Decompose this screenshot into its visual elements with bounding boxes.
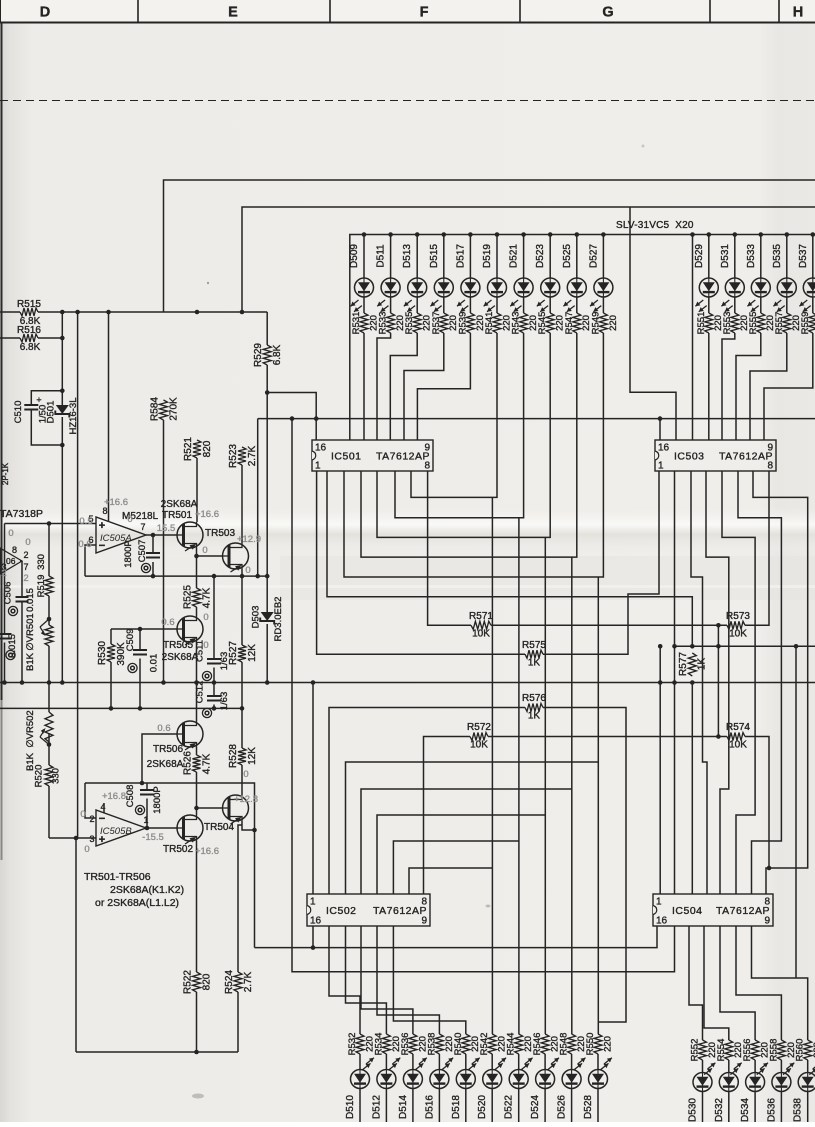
svg-text:10K: 10K: [470, 740, 488, 751]
wire: vertical x=660.2 to IC504: [659, 646, 661, 894]
node: bus junction D537: [811, 232, 815, 237]
resistor R541 220: [493, 313, 501, 333]
svg-text:0: 0: [203, 640, 208, 651]
wire: IC503 pin loop via x=781.4: [738, 471, 781, 894]
wire: feedback line y=576.1: [85, 575, 267, 577]
svg-text:R552: R552: [690, 1039, 701, 1062]
wire: D513 anode: [416, 235, 418, 279]
wire: op-amp B plus input line: [49, 837, 96, 839]
node: bus junction D531: [733, 232, 738, 237]
wire: R540 to D518: [465, 1054, 467, 1070]
wire: op-amp A output: [146, 534, 177, 536]
wire: D520 cathode off page: [491, 1089, 493, 1123]
wire: rail drop x=77.6 to IC505B plus net: [77, 312, 79, 838]
LED D526: [562, 1070, 581, 1089]
wire: IC502 loop arm 5: [346, 762, 599, 894]
svg-text:D512: D512: [371, 1095, 382, 1119]
node: bus junction D529: [707, 232, 712, 237]
svg-text:D520: D520: [477, 1095, 488, 1119]
wire: D521 cathode: [523, 297, 525, 313]
wire: R533 to IC501 pin12: [377, 333, 391, 440]
svg-text:IC505B: IC505B: [100, 826, 132, 837]
wire: R544 to D522: [518, 1054, 520, 1070]
svg-text:R515: R515: [17, 299, 41, 310]
svg-text:D538: D538: [793, 1098, 804, 1122]
svg-text:0.6: 0.6: [161, 617, 174, 628]
wire: IC504 pin to R554: [704, 926, 729, 1040]
wire: R584 down to mid rail: [163, 420, 165, 683]
svg-text:-15.5: -15.5: [142, 832, 164, 843]
svg-text:E: E: [228, 5, 238, 21]
resistor R534 220: [382, 1034, 390, 1054]
resistor R542 220: [488, 1034, 496, 1054]
node: bus junction D521: [521, 232, 526, 237]
svg-text:D522: D522: [504, 1095, 515, 1119]
svg-text:1800P: 1800P: [123, 540, 134, 567]
resistor R520 330: [45, 765, 53, 786]
svg-text:+16.8: +16.8: [102, 791, 126, 802]
svg-text:R523: R523: [228, 444, 239, 468]
svg-text:R548: R548: [559, 1033, 570, 1056]
wire: R525 to TR505 drain: [196, 607, 198, 616]
svg-text:2: 2: [23, 550, 28, 560]
wire: R535 to IC501 pin11: [390, 333, 417, 440]
wire: IC502 pin3 to R534: [346, 926, 387, 1034]
svg-text:270K: 270K: [169, 397, 180, 421]
wire: rail drop x=108.5 to IC505A pin8: [108, 312, 110, 522]
op-amp driver IC503 TA7612AP: [655, 440, 776, 471]
svg-text:R531: R531: [351, 312, 362, 335]
svg-text:TA7612AP: TA7612AP: [719, 451, 773, 463]
node: bus junction D511: [388, 232, 393, 237]
svg-text:1: 1: [315, 461, 321, 472]
wire: IC503 pin loop via x=702.5: [691, 471, 707, 894]
svg-text:R545: R545: [537, 312, 548, 335]
svg-text:TR504: TR504: [204, 822, 234, 833]
wire: left drop x=4.5 with cap: [4, 524, 6, 683]
svg-text:6.8K: 6.8K: [20, 342, 41, 353]
wire: R572/R574 line y=736.5: [424, 737, 471, 895]
wire: D525 anode: [576, 235, 578, 279]
variable resistor VR502 B1K: [45, 712, 53, 742]
wire: R554 to D532: [728, 1060, 730, 1073]
wire: R560 to D538: [807, 1060, 809, 1073]
op-amp driver IC501 TA7612AP: [312, 440, 433, 471]
svg-text:16: 16: [656, 916, 668, 927]
wire: R577 net down to IC504: [691, 683, 693, 895]
svg-text:D501: D501: [46, 401, 57, 424]
wire: R557 to IC503 pin: [750, 333, 787, 440]
svg-text:10K: 10K: [729, 740, 747, 751]
wire: bus dot feed IC503 pin14: [690, 232, 695, 237]
node: bus junction D515: [442, 232, 447, 237]
transistor TR502: [177, 815, 203, 841]
wire: IC504 pin to R558: [736, 926, 781, 1040]
resistor R532 220: [356, 1034, 364, 1054]
svg-text:820: 820: [202, 440, 213, 457]
svg-text:2: 2: [1, 568, 6, 579]
svg-text:F: F: [420, 5, 429, 21]
svg-text:D525: D525: [562, 244, 573, 268]
svg-text:D509: D509: [349, 244, 360, 268]
wire: net y=646.3: [675, 645, 815, 647]
wire: jog line y=971.8: [292, 419, 675, 972]
svg-text:SLV-31VC5 X20: SLV-31VC5 X20: [616, 220, 694, 231]
svg-text:0: 0: [8, 528, 13, 539]
svg-text:R557: R557: [774, 312, 785, 335]
resistor R530 390K: [107, 644, 115, 662]
capacitor C508 1800P: [146, 783, 148, 828]
resistor R556 220: [751, 1040, 759, 1060]
resistor R576 1K: [525, 704, 543, 712]
node: R516 junction: [60, 336, 65, 341]
capacitor 0.015: [0, 634, 12, 639]
LED D513: [408, 278, 427, 297]
svg-text:1: 1: [658, 461, 664, 472]
wire: TR501 source to TR503 gate: [197, 548, 223, 556]
resistor R531 220: [360, 313, 368, 333]
wire: lower rail y=947.6: [255, 926, 658, 948]
wire: D528 cathode off page: [597, 1089, 599, 1123]
wire: minus input to feedback-B: [85, 783, 96, 818]
svg-text:R551: R551: [696, 312, 707, 335]
svg-text:2: 2: [89, 814, 94, 824]
resistor R544 220: [515, 1034, 523, 1054]
svg-text:R559: R559: [800, 312, 811, 335]
wire: R556 to D534: [754, 1060, 756, 1073]
svg-text:4.7K: 4.7K: [202, 753, 213, 774]
wire: loop vertical to bottom bank col 7: [544, 537, 546, 1034]
LED D519: [488, 278, 507, 297]
svg-text:C509: C509: [125, 629, 136, 652]
svg-text:R576: R576: [522, 693, 546, 704]
svg-text:R539: R539: [457, 312, 468, 335]
wire: D537 cathode: [812, 297, 814, 313]
wire: 1052 rail: [76, 1051, 238, 1053]
svg-text:10K: 10K: [472, 629, 490, 640]
svg-text:12K: 12K: [247, 644, 258, 662]
svg-text:16: 16: [315, 443, 327, 454]
partial op-amp IC506 at left edge: [0, 548, 22, 574]
wire: TR502 drain to R522: [196, 841, 198, 972]
zener diode D503 RD3.0EB2: [261, 612, 274, 621]
wire: R546 to D524: [544, 1054, 546, 1070]
resistor R555 220: [757, 313, 765, 333]
variable resistor VR501 B1K: [45, 625, 53, 646]
svg-text:R534: R534: [373, 1033, 384, 1056]
wire: IC504 pin to R560: [752, 926, 808, 1040]
svg-text:4: 4: [100, 802, 105, 812]
svg-text:D503: D503: [251, 606, 262, 629]
node: bus junction D517: [468, 232, 473, 237]
paper speck: [642, 145, 645, 148]
svg-text:D537: D537: [798, 244, 809, 268]
node: mid rail junction: [311, 680, 316, 685]
svg-text:R535: R535: [404, 312, 415, 335]
svg-text:R520: R520: [34, 765, 45, 788]
node: mid rail junction: [161, 680, 166, 685]
capacitor C509 0.01: [139, 629, 141, 708]
svg-text:TR506: TR506: [153, 744, 183, 755]
svg-text:R574: R574: [726, 722, 750, 733]
wire: feed to next bank x=796: [795, 646, 797, 978]
node: mid rail junction: [672, 680, 677, 685]
wire: R573-R574 tie vertical: [717, 625, 719, 736]
wire: D516 cathode off page: [438, 1089, 440, 1123]
svg-text:IC504: IC504: [672, 905, 703, 917]
svg-text:D523: D523: [535, 244, 546, 268]
wire: line2 rail y=708.4: [0, 707, 242, 709]
node: mid rail junction: [658, 680, 663, 685]
wire: D525 cathode: [576, 297, 578, 313]
svg-text:IC502: IC502: [326, 905, 357, 917]
svg-text:D521: D521: [509, 244, 520, 268]
svg-text:1K: 1K: [528, 711, 541, 722]
wire: main mid rail y=682.5: [0, 682, 815, 684]
svg-text:9: 9: [421, 916, 427, 927]
LED D533: [751, 278, 770, 297]
wire: R520 to plus input line: [48, 786, 50, 838]
LED D511: [381, 278, 400, 297]
node: bus junction D513: [415, 232, 420, 237]
svg-text:330: 330: [51, 768, 62, 784]
wire: D535 anode: [786, 235, 788, 279]
transistor TR501 2SK68A: [177, 522, 203, 548]
resistor R528 12K: [241, 708, 243, 748]
svg-text:R533: R533: [378, 312, 389, 335]
svg-text:0: 0: [127, 514, 132, 525]
svg-text:16: 16: [658, 443, 670, 454]
wire: R553 to IC503 pin: [722, 333, 735, 440]
wire: D511 cathode: [390, 297, 392, 313]
resistor R584 270K: [160, 400, 168, 420]
wire: D527 anode: [602, 235, 604, 279]
svg-text:R547: R547: [564, 312, 575, 335]
svg-text:R554: R554: [716, 1039, 727, 1062]
resistor R572 10K: [470, 733, 488, 741]
svg-text:R540: R540: [453, 1033, 464, 1056]
resistor R547 220: [573, 313, 581, 333]
wire: IC503 pin loop via x=728.8: [706, 471, 729, 894]
svg-text:2P-1K: 2P-1K: [1, 462, 10, 485]
op-amp IC505A M5218L: [96, 517, 146, 553]
svg-text:1: 1: [656, 897, 662, 908]
resistor R515 6.8K: [0, 311, 20, 313]
resistor R537 220: [440, 313, 448, 333]
node: bus junction D523: [548, 232, 553, 237]
resistor R522 820: [193, 972, 201, 992]
svg-text:R538: R538: [426, 1033, 437, 1056]
LED D538: [798, 1073, 815, 1092]
wire: LED anode bus y=234.5: [350, 235, 815, 441]
node: mid rail junction: [60, 680, 65, 685]
wire: R558 to D536: [780, 1060, 782, 1073]
svg-text:TR501-TR506: TR501-TR506: [84, 871, 151, 883]
svg-text:G: G: [602, 5, 613, 21]
svg-text:1: 1: [143, 815, 148, 825]
svg-text:+16.6: +16.6: [195, 509, 219, 520]
wire: D515 cathode: [443, 297, 445, 313]
wire: R526 to TR502 source / TR504 gate: [197, 772, 223, 815]
svg-text:220: 220: [608, 315, 619, 331]
svg-text:R527: R527: [228, 641, 239, 665]
svg-text:D535: D535: [772, 244, 783, 268]
svg-text:D530: D530: [688, 1098, 699, 1122]
wire: IC503 pin15 chain to IC504: [674, 471, 676, 646]
svg-text:R519: R519: [36, 575, 47, 598]
svg-text:D529: D529: [694, 244, 705, 268]
svg-text:7: 7: [23, 562, 28, 572]
svg-text:C507: C507: [137, 540, 148, 563]
resistor R577 1K: [688, 653, 696, 676]
resistor R516 6.8K: [0, 337, 20, 339]
wire: IC502 pin2 to R532: [329, 926, 360, 1034]
svg-text:10K: 10K: [729, 629, 747, 640]
resistor R558 220: [777, 1040, 785, 1060]
svg-text:R544: R544: [506, 1033, 517, 1056]
wire: TR504 source jog: [242, 821, 255, 830]
svg-text:0.015: 0.015: [25, 588, 36, 612]
svg-text:1: 1: [310, 897, 316, 908]
wire: D530 cathode off page: [702, 1092, 704, 1123]
wire: IC502 pin4 to R536: [361, 926, 413, 1034]
svg-text:0: 0: [202, 545, 207, 556]
paper smudge: [192, 1094, 204, 1099]
svg-text:16: 16: [310, 916, 322, 927]
wire: D523 anode: [549, 235, 551, 279]
node: mid rail junction: [194, 680, 199, 685]
svg-text:R575: R575: [522, 640, 546, 651]
svg-text:D510: D510: [345, 1095, 356, 1119]
LED D512: [377, 1070, 396, 1089]
svg-text:D526: D526: [557, 1095, 568, 1119]
resistor R554 220: [725, 1040, 733, 1060]
wire: minus input to feedback: [85, 545, 96, 576]
wire: IC502 loop arm 4: [361, 789, 572, 894]
wire: TR505 source to mid rail: [196, 642, 198, 683]
svg-text:RD3.0EB2: RD3.0EB2: [273, 597, 284, 642]
svg-text:+16.6: +16.6: [104, 497, 128, 508]
svg-text:6.8K: 6.8K: [272, 344, 283, 365]
capacitor C510 1/50: [24, 405, 38, 410]
svg-text:R573: R573: [726, 611, 750, 622]
LED D516: [430, 1070, 449, 1089]
wire: D522 cathode off page: [518, 1089, 520, 1123]
wire: VR501 to mid rail: [48, 646, 50, 683]
svg-text:R577: R577: [678, 652, 689, 676]
transistor TR503: [223, 543, 249, 569]
resistor R535 220: [413, 313, 421, 333]
wire: D533 anode: [760, 235, 762, 279]
svg-text:R530: R530: [97, 641, 108, 665]
resistor R551 220: [705, 313, 713, 333]
resistor R574 10K: [727, 733, 745, 741]
wire: loop vertical to bottom bank col 6: [518, 518, 520, 1034]
node: R515 rail junction: [240, 310, 245, 315]
wire: R534 to D512: [385, 1054, 387, 1070]
svg-text:∅VR501: ∅VR501: [25, 613, 36, 650]
wire: D521 anode: [523, 235, 525, 279]
capacitor C511 1/63: [213, 576, 215, 682]
node: bus junction D519: [495, 232, 500, 237]
LED D531: [725, 278, 744, 297]
wire: D532 cathode off page: [728, 1092, 730, 1123]
wire: D538 cathode off page: [807, 1092, 809, 1123]
svg-text:R555: R555: [748, 312, 759, 335]
svg-text:R560: R560: [795, 1039, 806, 1062]
svg-text:−: −: [99, 813, 105, 825]
LED D521: [514, 278, 533, 297]
wire: R571/R573 line y=625.3: [428, 471, 471, 625]
svg-text:1800P: 1800P: [152, 786, 163, 813]
wire: IC503 pin loop via x=807.7: [753, 471, 808, 894]
wire: R536 to D514: [412, 1054, 414, 1070]
wire: D509 cathode: [363, 297, 365, 313]
wire: D535 cathode: [786, 297, 788, 313]
resistor R552 220: [699, 1040, 707, 1060]
wire: D517 cathode: [469, 297, 471, 313]
node: R515 rail junction: [60, 310, 65, 315]
resistor R571 10K: [471, 621, 491, 629]
resistor R538 220: [435, 1034, 443, 1054]
svg-text:820: 820: [202, 973, 213, 990]
capacitor C507 1800P: [152, 535, 154, 576]
svg-text:IC501: IC501: [331, 451, 362, 463]
wire: D527 cathode: [602, 297, 604, 313]
svg-text:R571: R571: [469, 611, 493, 622]
svg-text:0.6: 0.6: [78, 539, 91, 550]
svg-text:D533: D533: [746, 244, 757, 268]
svg-text:D531: D531: [720, 244, 731, 268]
wire: x=76 drop to 1052 rail: [75, 838, 77, 1052]
LED D532: [719, 1073, 738, 1092]
wire: TR505 gate line: [111, 628, 177, 630]
svg-text:TR503: TR503: [205, 528, 235, 539]
svg-text:2.7K: 2.7K: [243, 971, 254, 992]
capacitor C506 0.015: [16, 597, 29, 602]
op-amp driver IC504 TA7612AP: [653, 894, 773, 926]
wire: R528 to TR504 drain: [241, 765, 243, 795]
svg-text:R550: R550: [585, 1033, 596, 1056]
wire: R531 to IC501 pin13: [363, 333, 365, 440]
wire: IC504 pin to R552: [689, 926, 703, 1040]
svg-text:R521: R521: [183, 437, 194, 461]
wire: R551 to IC503 pin: [708, 333, 710, 440]
LED D536: [772, 1073, 791, 1092]
svg-text:D534: D534: [740, 1098, 751, 1122]
svg-text:D514: D514: [398, 1095, 409, 1119]
node: bus junction D509: [362, 232, 367, 237]
wire: op-amp A plus input line: [5, 523, 97, 525]
svg-text:R525: R525: [183, 585, 194, 609]
wire: R542 to D520: [491, 1054, 493, 1070]
svg-text:R553: R553: [722, 312, 733, 335]
LED D537: [803, 278, 815, 297]
resistor R545 220: [546, 313, 554, 333]
wire: outer supply line y=180: [164, 180, 815, 312]
svg-text:R558: R558: [768, 1039, 779, 1062]
svg-text:+16.6: +16.6: [195, 846, 219, 857]
wire: R555 to IC503 pin: [736, 333, 761, 440]
svg-text:or 2SK68A(L1.L2): or 2SK68A(L1.L2): [95, 897, 179, 909]
svg-text:TA7612AP: TA7612AP: [716, 905, 770, 917]
svg-text:D527: D527: [588, 244, 599, 268]
wire: R545 chain down to IC501 pin5: [377, 333, 550, 537]
LED D527: [594, 278, 613, 297]
resistor R548 220: [568, 1034, 576, 1054]
wire: net y=418.6 rail: [258, 418, 815, 420]
wire: inner supply line y=207: [242, 207, 815, 312]
